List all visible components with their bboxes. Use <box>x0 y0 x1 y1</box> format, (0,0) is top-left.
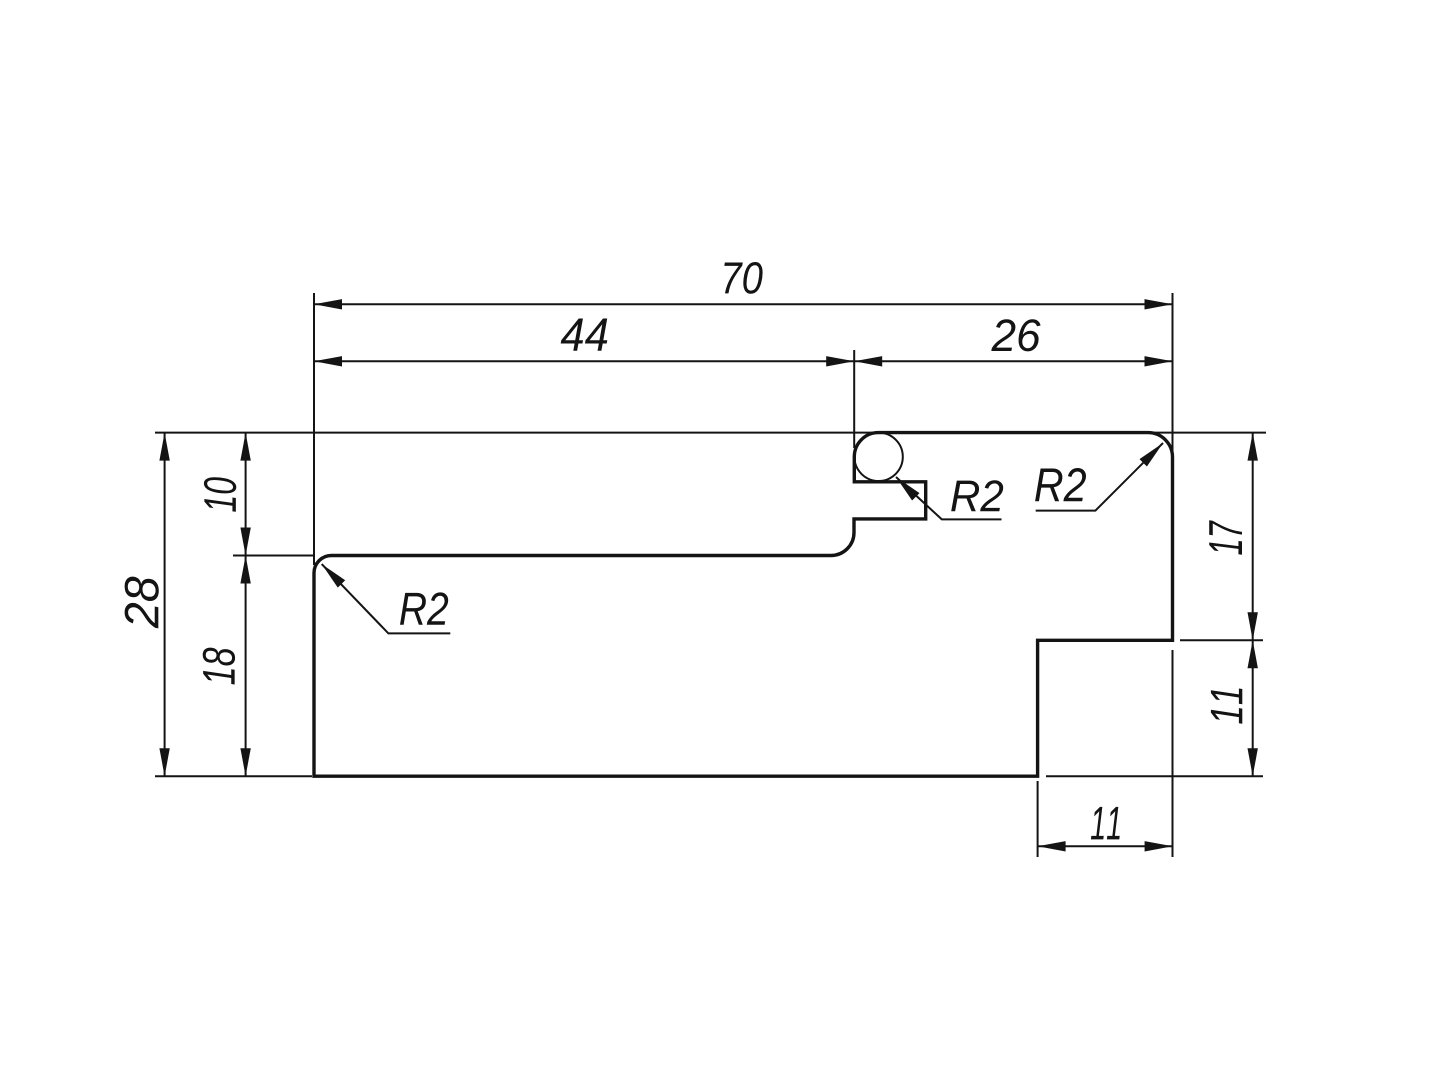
arrowhead leader R2 left step corner <box>322 564 346 588</box>
dim text 26 <box>991 319 1040 351</box>
leader line R2 left step corner <box>322 564 451 633</box>
dimension line 26 <box>854 360 1172 362</box>
extension line step left (y=555.5) <box>233 555 313 557</box>
arrowhead 11 bottom right <box>1145 841 1173 851</box>
radius label R2 top-right corner <box>1035 468 1086 501</box>
dim text 11 bottom <box>1091 807 1120 840</box>
arrowhead 26 right <box>1145 356 1173 366</box>
arrowhead 44 right <box>826 356 854 366</box>
dim text 18 <box>203 648 235 685</box>
dim text 44 <box>561 319 608 351</box>
extension line right vertical lower (x=1172.5) <box>1172 650 1174 857</box>
dim text 10 <box>204 477 236 512</box>
arrowhead leader R2 top-right corner <box>1140 443 1164 467</box>
dim text 17 <box>1209 520 1242 554</box>
arrowhead 18 top <box>240 556 250 584</box>
radius label R2 groove <box>951 480 1003 511</box>
arrowhead 11 bottom left <box>1038 841 1066 851</box>
dim text 70 <box>724 262 762 294</box>
leader line R2 top-right corner <box>1036 443 1163 511</box>
profile outline of frame cross-section <box>314 433 1173 777</box>
extension line top-left (y=432.6) <box>155 432 873 434</box>
extension line left vertical (x=314) <box>313 293 315 565</box>
extension line 44/26 vertical (x=854.2) <box>853 350 855 448</box>
arrowhead 70 left <box>314 299 342 309</box>
dim text 11 right <box>1211 688 1242 723</box>
extension line bottom-left (y=776.2) <box>155 775 312 777</box>
arrowhead leader R2 groove <box>896 477 920 501</box>
extension line top-right (y=432.6) <box>1150 432 1266 434</box>
arrowhead 17 bottom <box>1248 612 1258 640</box>
arrowhead 11 right top <box>1248 640 1258 668</box>
groove circle R2 <box>854 433 902 481</box>
dimension line 28 <box>164 433 166 777</box>
dimension line 18 <box>245 556 247 777</box>
extension line bottom-right (y=776.2) <box>1046 775 1263 777</box>
arrowhead 44 left <box>314 356 342 366</box>
extension line step bottom-right (y=640.3) <box>1180 639 1263 641</box>
arrowhead 18 bottom <box>240 748 250 776</box>
dimension line 70 <box>314 303 1173 305</box>
dimension line 44 <box>314 360 854 362</box>
arrowhead 28 bottom <box>159 748 169 776</box>
arrowhead 26 left <box>854 356 882 366</box>
extension line right vertical upper (x=1172.5) <box>1172 293 1174 456</box>
arrowhead 70 right <box>1145 299 1173 309</box>
arrowhead 10 top <box>240 433 250 461</box>
dimension line 17 <box>1252 433 1254 641</box>
dimension line 10 <box>245 433 247 556</box>
arrowhead 10 bottom <box>240 528 250 556</box>
radius label R2 left step corner <box>400 592 448 624</box>
arrowhead 11 right bottom <box>1248 748 1258 776</box>
arrowhead 17 top <box>1248 433 1258 461</box>
leader line R2 groove <box>896 477 1002 519</box>
dimension line 11 right <box>1252 640 1254 776</box>
dim text 28 <box>125 577 159 629</box>
dimension line 11 bottom <box>1038 845 1173 847</box>
arrowhead 28 top <box>159 433 169 461</box>
extension line notch bottom vertical (x=1037.6) <box>1037 781 1039 857</box>
